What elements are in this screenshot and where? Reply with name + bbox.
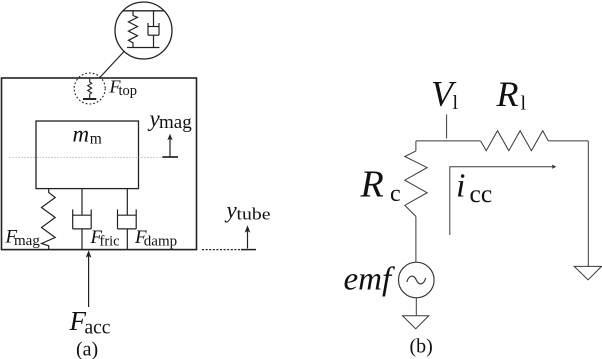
damper F_fric cup left wall bbox=[72, 209, 74, 229]
F_acc arrowhead bbox=[86, 250, 92, 258]
svg-text:R: R bbox=[360, 164, 384, 206]
wire left vertical lower bbox=[415, 216, 417, 262]
resistor R_c bbox=[405, 151, 427, 217]
svg-text:emf: emf bbox=[344, 262, 395, 298]
damper F_damp rod upper bbox=[126, 189, 128, 216]
outer tube box bbox=[2, 78, 197, 250]
damper F_damp cup bottom bbox=[118, 228, 137, 230]
svg-text:m: m bbox=[90, 131, 102, 148]
y_tube base bar bbox=[241, 249, 256, 251]
bubble ceiling line bbox=[123, 10, 164, 12]
F_acc arrow shaft bbox=[88, 253, 90, 308]
wire left vertical upper bbox=[415, 141, 417, 151]
svg-text:R: R bbox=[496, 74, 519, 114]
bubble damper cup bottom bbox=[148, 34, 159, 36]
wire below emf bbox=[415, 298, 417, 316]
resistor R_l bbox=[481, 131, 549, 151]
bubble damper rod lower bbox=[153, 35, 155, 47]
y_mag base bar bbox=[162, 156, 178, 158]
gray dotted equilibrium line bbox=[10, 156, 163, 158]
damper F_fric rod lower bbox=[81, 229, 83, 250]
damper F_fric cup bottom bbox=[73, 228, 92, 230]
ground bar under F_top spring bbox=[83, 98, 96, 100]
bubble damper cup left wall bbox=[147, 23, 149, 35]
damper F_fric cup right wall bbox=[90, 209, 92, 229]
wire top left bbox=[416, 140, 481, 142]
svg-text:(b): (b) bbox=[410, 336, 433, 358]
y_tube arrow shaft bbox=[247, 229, 249, 249]
svg-text:fric: fric bbox=[100, 234, 120, 250]
y_mag arrow shaft bbox=[169, 138, 171, 158]
emf source circle bbox=[399, 262, 435, 298]
ground below emf bbox=[403, 316, 429, 329]
callout diagonal line bbox=[100, 51, 124, 77]
svg-text:l: l bbox=[453, 92, 459, 114]
mass box m_m bbox=[36, 121, 139, 189]
i_cc arrowhead bbox=[552, 165, 556, 169]
ground right bbox=[574, 266, 601, 279]
bubble spring bbox=[129, 11, 138, 48]
bubble damper rod upper bbox=[153, 11, 155, 27]
damper F_fric rod upper bbox=[81, 189, 83, 216]
bubble bottom line bbox=[127, 47, 160, 49]
dotted reference line right of box bbox=[202, 249, 241, 251]
node tick V_l bbox=[446, 115, 448, 139]
damper F_damp rod lower bbox=[126, 229, 128, 250]
wire top right bbox=[548, 140, 588, 142]
svg-text:damp: damp bbox=[144, 234, 177, 250]
bubble damper cup right wall bbox=[158, 23, 160, 35]
svg-text:cc: cc bbox=[470, 179, 493, 208]
svg-text:c: c bbox=[390, 181, 401, 207]
damper F_fric piston plate bbox=[73, 214, 92, 216]
damper F_damp cup left wall bbox=[117, 209, 119, 229]
svg-text:acc: acc bbox=[85, 318, 111, 339]
zoom bubble circle bbox=[115, 2, 172, 59]
spring F_top symbol bbox=[88, 79, 92, 99]
svg-text:i: i bbox=[456, 167, 465, 204]
i_cc arrow path bbox=[450, 167, 553, 235]
svg-text:m: m bbox=[73, 122, 90, 147]
emf sine tilde bbox=[407, 276, 426, 284]
y_mag arrowhead bbox=[167, 134, 172, 141]
dashed detail circle bbox=[74, 73, 105, 104]
spring F_mag bbox=[42, 189, 56, 250]
svg-text:tube: tube bbox=[237, 204, 271, 223]
svg-text:l: l bbox=[521, 93, 527, 115]
wire right vertical bbox=[587, 141, 589, 267]
y_tube arrowhead bbox=[245, 225, 251, 232]
svg-text:top: top bbox=[119, 83, 138, 99]
bubble damper piston plate bbox=[148, 26, 159, 28]
damper F_damp cup right wall bbox=[135, 209, 137, 229]
svg-text:mag: mag bbox=[159, 112, 192, 133]
svg-text:mag: mag bbox=[14, 233, 40, 249]
svg-text:(a): (a) bbox=[76, 339, 98, 359]
damper F_damp piston plate bbox=[118, 214, 137, 216]
